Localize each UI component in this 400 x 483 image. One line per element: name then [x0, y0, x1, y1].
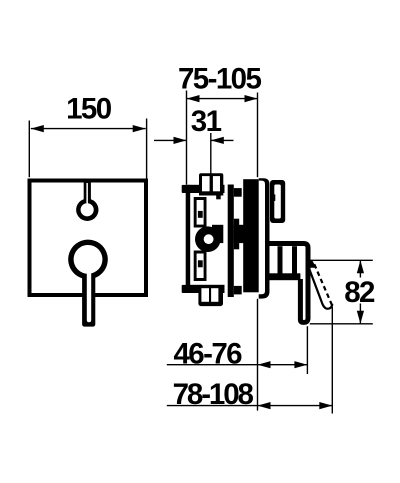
- side view: lower bracket screw: [198, 260, 203, 267]
- extension line wall plane (left of dims 46-76 and 78-108): [257, 299, 259, 411]
- arrowhead left of dim 31: [174, 137, 187, 144]
- svg-text:75-105: 75-105: [178, 63, 261, 96]
- extension line right of dim 46-76: [306, 326, 308, 374]
- side view: handle base cone: [269, 244, 308, 323]
- side view: cone window mullion left: [278, 246, 283, 274]
- side view: body top bar: [189, 185, 224, 193]
- svg-text:31: 31: [191, 105, 222, 138]
- extension line left of dim 150: [28, 121, 30, 178]
- dimension line 78-108: [167, 405, 332, 407]
- front view: diverter knob keyhole (small circle with slot): [76, 179, 98, 221]
- arrowhead right of dim 75-105: [245, 95, 258, 102]
- svg-text:46-76: 46-76: [174, 338, 243, 371]
- front view: lever handle keyhole (big circle with lever): [68, 240, 108, 327]
- dimension line 150: [31, 128, 146, 130]
- arrowhead left of dim 78-108: [258, 402, 271, 409]
- extension line left of dim 75-105: [186, 91, 188, 185]
- side view: rear bar: [186, 185, 191, 293]
- arrowhead right of dim 31: [211, 137, 224, 144]
- extension line right of dim 31: [210, 133, 212, 176]
- side view: foot tab slot right (white): [211, 288, 218, 302]
- dimension leader left of dim 31: [154, 139, 187, 141]
- dimension line 82 lower segment: [359, 304, 361, 324]
- side view: foot tab slot left (white): [201, 288, 209, 302]
- front view: wall plate: [30, 181, 147, 296]
- dimension leader right of dim 31: [211, 139, 234, 141]
- side view: rear tabs: [182, 185, 190, 193]
- side view: handle lever dashed upper edge: [314, 264, 332, 306]
- extension line top of dim 82: [309, 259, 373, 261]
- svg-text:150: 150: [66, 92, 112, 125]
- side view: wall section band: [243, 179, 259, 292]
- side view: bottom foot tab: [198, 285, 223, 306]
- arrowhead right of dim 78-108: [319, 402, 332, 409]
- arrowhead bottom of dim 82: [357, 311, 364, 324]
- side view: top tab slot left (white): [202, 176, 210, 191]
- arrowhead right of dim 150: [133, 125, 146, 132]
- side view: top mounting tab: [199, 173, 223, 187]
- side view: handle lever root: [309, 260, 317, 268]
- side view: escutcheon plate: [259, 178, 270, 298]
- extension line bottom of dim 82: [310, 323, 373, 325]
- svg-text:78-108: 78-108: [173, 378, 254, 411]
- dimension line 46-76: [167, 364, 308, 366]
- side view: retaining hook: [270, 180, 285, 223]
- arrowhead left of dim 75-105: [187, 95, 200, 102]
- side view: cone window mullion right: [292, 246, 297, 277]
- side view: cone mid bar: [269, 273, 300, 280]
- side view: body bottom bar: [189, 285, 224, 293]
- arrowhead left of dim 150: [31, 125, 44, 132]
- side view: top tab slot right (white): [213, 176, 220, 191]
- side view: upper bracket screw: [198, 211, 203, 218]
- extension line right of dim 75-105: [257, 93, 259, 178]
- extension line right of dim 78-108: [331, 307, 333, 414]
- arrowhead left of dim 46-76: [258, 361, 271, 368]
- svg-text:82: 82: [344, 276, 375, 309]
- side view: handle lever solid lower edge and tip: [309, 267, 333, 309]
- dimension line 82 upper segment: [359, 260, 361, 277]
- dimension line 75-105: [187, 98, 258, 100]
- side view: upper bracket: [194, 197, 207, 228]
- side view: lower bracket: [194, 251, 207, 282]
- extension line right of dim 150: [146, 119, 148, 179]
- side view: cartridge column: [228, 185, 234, 298]
- side view: cartridge boss circle: [212, 225, 223, 243]
- arrowhead top of dim 82: [357, 260, 364, 273]
- arrowhead right of dim 46-76: [294, 361, 307, 368]
